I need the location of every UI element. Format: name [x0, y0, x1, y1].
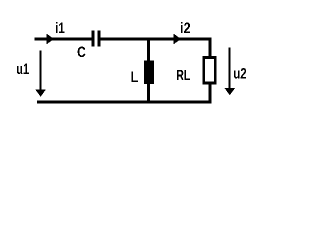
- label RL: [177, 70, 190, 80]
- voltage arrow u2 shaft: [229, 48, 231, 90]
- current arrow i1 head: [46, 34, 54, 45]
- label i2: [181, 22, 190, 33]
- wire L bottom stub: [147, 84, 150, 102]
- label C: [78, 47, 86, 58]
- label i1: [56, 22, 65, 33]
- current arrow i2 head: [173, 34, 181, 45]
- wire top rail left segment: [35, 38, 92, 41]
- wire top rail right segment with corner down to RL: [101, 39, 211, 57]
- label u2: [234, 68, 246, 79]
- voltage arrow u1 head: [35, 89, 46, 97]
- wire bottom rail: [37, 101, 211, 104]
- inductor L body: [144, 60, 154, 84]
- wire junction branch to L: [147, 39, 150, 61]
- label L: [131, 72, 137, 82]
- voltage arrow u1 shaft: [40, 51, 42, 91]
- resistor RL body: [204, 57, 215, 83]
- capacitor C left plate: [92, 31, 95, 47]
- capacitor C right plate: [98, 31, 101, 47]
- wire RL bottom stub: [209, 84, 212, 102]
- label u1: [17, 64, 29, 74]
- voltage arrow u2 head: [224, 88, 235, 95]
